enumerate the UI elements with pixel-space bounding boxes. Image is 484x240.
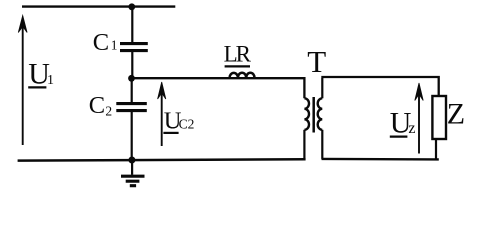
label C1: [93, 29, 118, 56]
wire from C1 to mid node: [131, 52, 133, 78]
svg-text:C2: C2: [179, 117, 195, 132]
arrowhead of UC2 arrow: [158, 82, 166, 99]
wire mid rail with corner down to transformer primary: [131, 78, 304, 98]
svg-text:1: 1: [47, 73, 54, 88]
svg-text:LR: LR: [224, 42, 252, 67]
svg-text:C: C: [89, 92, 105, 119]
arrowhead of U1 arrow: [18, 16, 27, 33]
wire secondary bottom: [322, 158, 439, 161]
arrow shaft UC2: [161, 88, 163, 146]
node junction dot between C1 and C2: [128, 75, 135, 82]
inductor LR: [230, 73, 255, 78]
label UZ: [390, 106, 416, 139]
wire secondary top with corner down to load Z: [321, 77, 438, 96]
wire from C2 to bottom rail: [131, 112, 133, 160]
arrow shaft UZ: [418, 89, 420, 154]
wire top rail: [22, 5, 175, 7]
wire from top rail to capacitor C1: [131, 7, 133, 43]
wire from mid node to capacitor C2: [131, 78, 133, 103]
arrowhead of UZ arrow: [415, 83, 423, 101]
svg-text:Z: Z: [447, 97, 465, 130]
svg-text:T: T: [307, 44, 326, 79]
capacitor C1: [120, 44, 148, 51]
label Z: [447, 97, 465, 130]
label UC2: [163, 107, 194, 134]
node junction dot top rail / C1: [128, 3, 135, 10]
svg-text:1: 1: [111, 38, 118, 53]
label LR: [224, 42, 252, 67]
wire bottom rail (primary side): [18, 159, 306, 160]
label U1: [28, 57, 54, 90]
transformer T primary winding: [304, 98, 309, 160]
wire left source arrow shaft U1: [22, 22, 24, 145]
label T: [307, 44, 326, 79]
transformer T secondary winding: [318, 78, 323, 159]
transformer T core: [312, 97, 315, 133]
svg-text:C: C: [93, 29, 109, 56]
capacitor C2: [116, 104, 147, 111]
label C2: [89, 92, 112, 119]
svg-text:2: 2: [105, 104, 112, 119]
ground: [121, 160, 145, 186]
wire from load Z to bottom rail: [435, 140, 437, 160]
svg-text:z: z: [408, 120, 415, 137]
node junction dot bottom rail / ground: [128, 157, 135, 164]
load Z (impedance rectangle): [432, 96, 446, 139]
